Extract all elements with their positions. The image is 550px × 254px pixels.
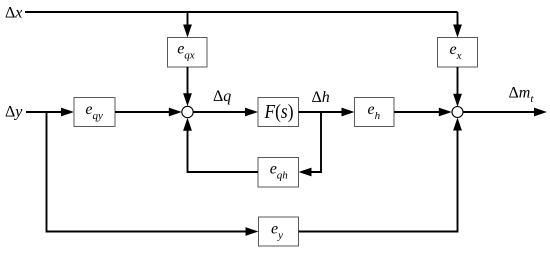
block e_y: [259, 217, 299, 246]
wire F(s) to eh: [299, 111, 345, 113]
wire sum2 output: [463, 111, 536, 113]
svg-text:Δy: Δy: [5, 104, 23, 121]
block e_qh: [258, 158, 299, 188]
block e_x: [438, 38, 478, 68]
wire sum1 to F(s): [193, 111, 247, 113]
block F(s): [258, 98, 299, 127]
wire ex to sum2: [457, 67, 459, 96]
wire Δy branch down: [47, 112, 248, 232]
wire eh to sum2: [394, 111, 441, 113]
block e_h: [355, 98, 395, 127]
wire branch down to eqx: [187, 12, 189, 26]
svg-text:Δh: Δh: [312, 89, 330, 106]
wire ey to sum2 bottom: [299, 129, 458, 232]
svg-text:Δx: Δx: [5, 5, 22, 22]
summing junction sum1: [182, 106, 193, 117]
wire branch down to eqh: [309, 112, 321, 172]
wire Δy to eqy: [26, 111, 63, 113]
wire eqh to sum1 bottom: [188, 129, 259, 172]
wire eqy to sum1: [115, 111, 171, 113]
wire eqx to sum1: [187, 67, 189, 96]
svg-text:F(s): F(s): [264, 101, 294, 123]
block e_qx: [168, 38, 208, 68]
wire corner down to ex: [457, 12, 459, 26]
block e_qy: [74, 98, 115, 127]
wire top Δx line: [25, 11, 458, 13]
svg-text:Δq: Δq: [213, 88, 231, 105]
summing junction sum2: [452, 107, 463, 118]
